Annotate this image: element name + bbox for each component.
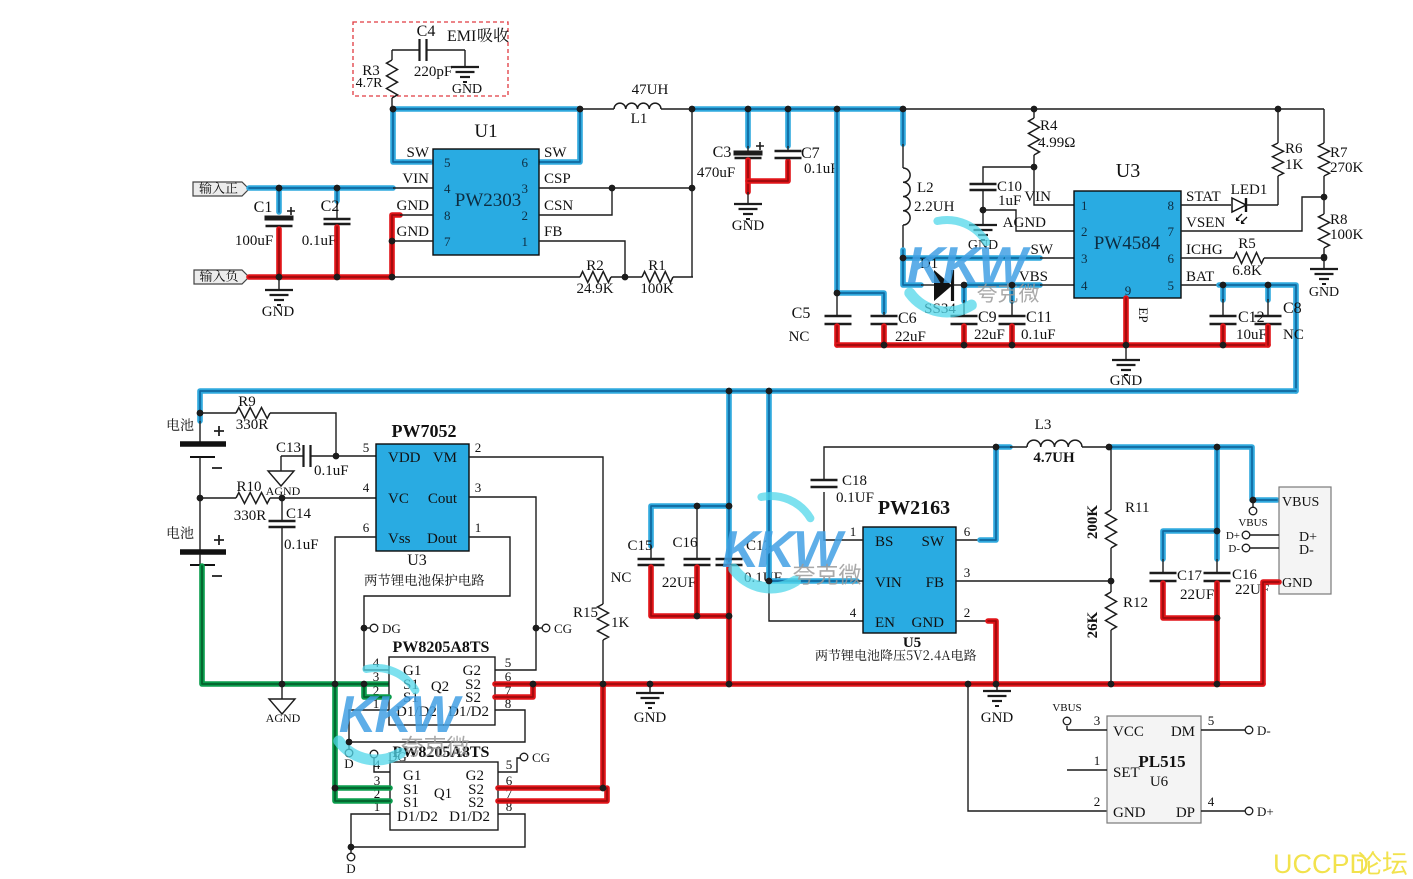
test point CG upper — [542, 624, 550, 632]
svg-text:C16: C16 — [1232, 567, 1258, 583]
svg-text:DM: DM — [1171, 724, 1195, 740]
inductor L2 2.2UH — [902, 144, 904, 168]
wire VBUS gnd red — [1217, 582, 1279, 684]
wire EP pad red — [1123, 298, 1129, 345]
svg-text:R9: R9 — [238, 394, 256, 410]
svg-text:D+: D+ — [1226, 530, 1240, 542]
junction dots top bus — [390, 106, 397, 113]
svg-text:PL515: PL515 — [1138, 752, 1185, 771]
wire U1 gnd pins — [400, 214, 433, 216]
svg-text:200K: 200K — [1085, 505, 1101, 540]
svg-text:6: 6 — [522, 155, 529, 170]
wire CSN net — [539, 188, 612, 215]
svg-text:8: 8 — [444, 208, 451, 223]
wire SET stub — [1067, 769, 1107, 771]
wire C5 gnd red — [834, 326, 840, 345]
svg-text:GND: GND — [1309, 285, 1339, 300]
svg-text:NC: NC — [611, 570, 632, 586]
wire Q1 G1 to DG — [374, 758, 390, 772]
wire Q2 S1 pin2 green — [364, 684, 389, 697]
ground right of Q2 — [649, 684, 651, 693]
wire Q1 G2 to CG — [498, 758, 520, 772]
svg-text:5: 5 — [505, 655, 512, 670]
svg-text:VIN: VIN — [1024, 189, 1051, 205]
capacitor C2 — [324, 218, 351, 221]
svg-text:0.1UF: 0.1UF — [836, 490, 874, 506]
wire battery plus bus blue — [200, 391, 1296, 421]
watermark KKW 2 — [366, 668, 415, 690]
buck IC U5 PW2163 body — [863, 527, 956, 633]
svg-text:GND: GND — [912, 615, 945, 631]
svg-text:C4: C4 — [417, 23, 436, 40]
wire D+ line — [1250, 534, 1279, 536]
svg-text:GND: GND — [732, 218, 765, 234]
svg-text:U6: U6 — [1150, 774, 1169, 790]
svg-text:1K: 1K — [1285, 157, 1304, 173]
svg-text:SET: SET — [1113, 765, 1140, 781]
resistor R15 1K — [598, 604, 609, 640]
led LED1 — [1232, 198, 1246, 212]
ground of C4 — [451, 66, 479, 68]
wire C15 C16 C17 gnd red — [651, 567, 729, 616]
svg-text:1uF: 1uF — [998, 193, 1021, 209]
svg-text:10uF: 10uF — [1236, 327, 1267, 343]
svg-text:CSP: CSP — [544, 171, 571, 187]
svg-text:BS: BS — [875, 534, 893, 550]
svg-text:22uF: 22uF — [974, 327, 1005, 343]
svg-text:4: 4 — [1081, 278, 1088, 293]
svg-text:C15: C15 — [627, 538, 652, 554]
capacitor C17 22UF output — [1163, 531, 1217, 559]
wire VOUT bus blue — [692, 106, 903, 112]
wire C6 gnd red — [881, 326, 887, 345]
wire SW node top bus blue left — [393, 106, 580, 112]
svg-text:24.9K: 24.9K — [576, 281, 613, 297]
svg-text:AGND: AGND — [266, 711, 301, 725]
svg-text:D1/D2: D1/D2 — [449, 809, 490, 825]
wire Dout net to DG — [364, 537, 510, 670]
wire VCC to VBUS tp — [1067, 729, 1107, 731]
ground of EP — [1125, 345, 1127, 360]
watermark KKW 3 — [761, 496, 810, 518]
svg-text:1: 1 — [522, 234, 529, 249]
svg-text:Vss: Vss — [388, 531, 411, 547]
svg-text:VBUS: VBUS — [1052, 702, 1081, 714]
svg-text:R5: R5 — [1238, 236, 1256, 252]
svg-text:FB: FB — [544, 224, 562, 240]
watermark KKW 1 — [937, 220, 986, 242]
svg-text:R10: R10 — [236, 479, 261, 495]
svg-text:100K: 100K — [640, 281, 674, 297]
wire C3 stub blue — [745, 109, 751, 146]
wire Vout to C5 C6 blue — [837, 109, 884, 312]
capacitor C15 NC — [650, 546, 652, 559]
svg-text:22UF: 22UF — [1180, 587, 1214, 603]
svg-text:D1/D2: D1/D2 — [397, 809, 438, 825]
svg-text:STAT: STAT — [1186, 189, 1221, 205]
svg-text:CG: CG — [532, 750, 550, 765]
svg-text:L1: L1 — [631, 111, 648, 127]
ground below bus mid — [996, 684, 998, 691]
svg-text:4.7UH: 4.7UH — [1033, 450, 1075, 466]
svg-text:GND: GND — [1110, 373, 1143, 389]
svg-text:PW2163: PW2163 — [878, 497, 950, 519]
svg-text:1: 1 — [475, 520, 482, 535]
resistor R1 100K — [642, 272, 673, 283]
svg-text:EMI: EMI — [447, 28, 476, 45]
wire Q1 S2 pins red — [498, 684, 603, 788]
svg-text:CG: CG — [554, 621, 572, 636]
svg-text:0.1uF: 0.1uF — [314, 463, 349, 479]
capacitor C3 470uF polarized — [747, 146, 749, 151]
svg-text:SW: SW — [544, 145, 567, 161]
svg-text:C2: C2 — [321, 198, 340, 215]
svg-text:100K: 100K — [1330, 227, 1364, 243]
svg-text:470uF: 470uF — [697, 165, 735, 181]
svg-text:2: 2 — [1081, 224, 1088, 239]
svg-text:6: 6 — [363, 520, 370, 535]
wire D1 anode blue — [903, 258, 921, 285]
capacitor C18 0.1UF — [811, 479, 838, 482]
capacitor C16 22UF output — [1214, 447, 1220, 559]
node VBUS test point — [1250, 497, 1257, 504]
svg-text:3: 3 — [1094, 713, 1101, 728]
svg-text:VBUS: VBUS — [1238, 517, 1267, 529]
wire C3 gnd red — [745, 160, 751, 192]
analog ground AGND below — [269, 699, 295, 714]
capacitor C1 100uF polarized — [336, 201, 338, 219]
junction dots overlay — [390, 106, 397, 113]
wire C2 stub blue — [334, 188, 340, 201]
battery B2 bottom cell — [180, 549, 226, 555]
wire U1 pin6 SW riser — [539, 109, 580, 162]
capacitor C11 0.1uF — [1009, 285, 1015, 301]
svg-text:0.1uF: 0.1uF — [302, 233, 337, 249]
inductor L3 4.7UH — [1010, 446, 1027, 448]
svg-text:D-: D- — [1228, 543, 1240, 555]
caption battery protection circuit — [365, 574, 485, 586]
svg-text:GND: GND — [981, 710, 1014, 726]
svg-text:8: 8 — [1168, 198, 1175, 213]
svg-text:0.1uF: 0.1uF — [804, 161, 839, 177]
svg-text:6: 6 — [964, 524, 971, 539]
svg-text:270K: 270K — [1330, 160, 1364, 176]
wire between cells — [199, 457, 201, 550]
svg-text:VCC: VCC — [1113, 724, 1144, 740]
input positive terminal — [193, 182, 249, 196]
wire FB net — [539, 241, 625, 277]
svg-text:26K: 26K — [1085, 611, 1101, 638]
svg-text:GND: GND — [634, 710, 667, 726]
svg-text:D: D — [346, 861, 355, 876]
svg-text:R11: R11 — [1125, 500, 1149, 516]
capacitor C5 NC — [836, 293, 838, 316]
svg-text:1K: 1K — [611, 615, 630, 631]
svg-text:VIN: VIN — [875, 575, 902, 591]
resistor R8 100K — [1319, 214, 1330, 248]
svg-text:R7: R7 — [1330, 145, 1348, 161]
svg-text:LED1: LED1 — [1231, 182, 1268, 198]
svg-text:GND: GND — [262, 304, 295, 320]
svg-text:C18: C18 — [842, 473, 867, 489]
wire mid gnd bus red — [533, 681, 1263, 687]
wire top bus black right — [903, 108, 1324, 110]
svg-text:4: 4 — [363, 480, 370, 495]
op-amp U1 PW2303 body — [433, 149, 539, 255]
svg-text:C7: C7 — [801, 145, 820, 162]
svg-text:DG: DG — [382, 621, 401, 636]
wire FB net — [956, 580, 1111, 582]
svg-text:GND: GND — [452, 82, 482, 97]
svg-text:4.99Ω: 4.99Ω — [1038, 135, 1075, 151]
svg-text:VIN: VIN — [402, 171, 429, 187]
resistor R6 1K — [1277, 109, 1279, 143]
mosfet Q1 body — [390, 762, 498, 830]
svg-text:SW: SW — [1031, 242, 1054, 258]
wire gnd bus red top — [837, 342, 1268, 348]
svg-text:L2: L2 — [917, 180, 934, 196]
svg-text:3: 3 — [475, 480, 482, 495]
svg-text:D+: D+ — [1257, 804, 1274, 819]
svg-text:GND: GND — [397, 198, 430, 214]
svg-text:GND: GND — [1113, 805, 1146, 821]
wire GND pin red — [956, 620, 989, 622]
wire Q1 D1/D2 loop — [351, 814, 525, 847]
analog ground AGND of C13 — [280, 456, 282, 471]
usb id IC U6 PL515 body — [1107, 716, 1201, 823]
wire DM to D- — [1201, 729, 1245, 731]
svg-text:7: 7 — [444, 234, 451, 249]
svg-text:5: 5 — [444, 155, 451, 170]
wire D- line — [1250, 547, 1279, 549]
svg-text:4.7R: 4.7R — [356, 76, 384, 91]
capacitor C8 NC — [1265, 285, 1271, 300]
capacitor C6 22uF — [883, 312, 885, 316]
input negative terminal — [194, 270, 249, 284]
svg-text:C14: C14 — [286, 506, 312, 522]
svg-text:R8: R8 — [1330, 212, 1348, 228]
svg-text:4: 4 — [444, 181, 451, 196]
svg-text:3: 3 — [1081, 251, 1088, 266]
wire U1 pin5 SW riser — [393, 109, 431, 162]
wire L2 top blue — [900, 109, 906, 144]
capacitor C14 0.1uF — [281, 498, 283, 521]
svg-text:VC: VC — [388, 491, 409, 507]
svg-text:D-: D- — [1299, 543, 1314, 558]
svg-text:2.2UH: 2.2UH — [914, 199, 955, 215]
svg-text:R4: R4 — [1040, 118, 1058, 134]
resistor R11 200K — [1110, 447, 1112, 510]
svg-text:C17: C17 — [1177, 568, 1203, 584]
resistor R7 270K — [1323, 109, 1325, 143]
wire Vss net — [335, 537, 376, 684]
svg-text:2: 2 — [1094, 794, 1101, 809]
svg-text:NC: NC — [1283, 327, 1304, 343]
svg-text:0.1uF: 0.1uF — [284, 537, 319, 553]
test point CG lower — [520, 753, 528, 761]
svg-text:AGND: AGND — [1003, 215, 1046, 231]
svg-text:PW8205A8TS: PW8205A8TS — [393, 639, 490, 656]
wire C10 to AGND pin — [982, 190, 984, 225]
wire VIN drop blue — [769, 391, 857, 581]
resistor R5 6.8K — [1181, 257, 1234, 259]
wire CSP net — [539, 187, 692, 189]
svg-text:U5: U5 — [903, 635, 921, 651]
wire R4 to VIN — [1034, 167, 1074, 205]
svg-text:U3: U3 — [407, 552, 427, 569]
svg-text:FB: FB — [926, 575, 944, 591]
wire C2 to gnd red — [334, 227, 340, 277]
wire L1 output to CSP vertical — [691, 109, 693, 277]
svg-text:330R: 330R — [234, 508, 267, 524]
svg-text:DP: DP — [1176, 805, 1195, 821]
ground of C10 — [969, 224, 997, 226]
svg-text:100uF: 100uF — [235, 233, 273, 249]
mosfet Q2 body — [389, 657, 495, 725]
test point DG upper — [370, 624, 378, 632]
wire top bus black through L1 — [580, 108, 614, 110]
capacitor C17 0.1UF — [728, 559, 730, 562]
ground of C3 — [747, 192, 749, 204]
svg-text:R15: R15 — [573, 605, 598, 621]
svg-text:C11: C11 — [1026, 309, 1052, 326]
wire STAT to LED1 — [1181, 204, 1231, 206]
svg-text:5: 5 — [363, 440, 370, 455]
svg-text:0.1uF: 0.1uF — [1021, 327, 1056, 343]
wire bottom sense line — [392, 276, 580, 278]
wire VBAT drop to C17 blue — [726, 391, 732, 562]
svg-text:VDD: VDD — [388, 450, 421, 466]
diode D1 SS34 — [921, 284, 935, 286]
svg-text:R6: R6 — [1285, 141, 1303, 157]
capacitor C7 — [787, 146, 789, 151]
ground of R8 — [1323, 258, 1325, 269]
svg-text:1: 1 — [850, 524, 857, 539]
svg-text:GND: GND — [397, 224, 430, 240]
resistor R12 26K — [1110, 581, 1112, 592]
svg-text:Q1: Q1 — [434, 786, 452, 802]
svg-text:3: 3 — [522, 181, 529, 196]
resistor R10 330R — [200, 497, 236, 499]
svg-text:BAT: BAT — [1186, 269, 1214, 285]
svg-text:3: 3 — [964, 565, 971, 580]
wire C7 stub blue — [785, 109, 791, 146]
capacitor C12 10uF — [1220, 285, 1226, 300]
svg-text:U1: U1 — [474, 121, 497, 142]
svg-text:U3: U3 — [1116, 160, 1140, 182]
wire SW to L3 blue — [956, 539, 982, 541]
resistor R3 — [387, 60, 398, 98]
wire C3-C7 red link — [748, 161, 788, 181]
EMI snubber dashed box — [353, 22, 508, 96]
svg-text:ICHG: ICHG — [1186, 242, 1223, 258]
svg-text:1: 1 — [1081, 198, 1088, 213]
wire DP to D+ — [1201, 810, 1245, 812]
svg-text:SW: SW — [407, 145, 430, 161]
svg-text:PW4584: PW4584 — [1094, 233, 1161, 254]
wire C1 stub blue — [276, 188, 282, 212]
svg-text:PW7052: PW7052 — [392, 421, 457, 441]
svg-text:KKW: KKW — [339, 686, 463, 744]
wire BAT net blue — [1181, 284, 1221, 286]
wire battery minus green — [202, 566, 389, 684]
svg-text:5: 5 — [1208, 713, 1215, 728]
connector VBUS output — [1279, 487, 1331, 594]
svg-text:Dout: Dout — [427, 531, 458, 547]
svg-text:4: 4 — [1208, 794, 1215, 809]
wire EN tie — [769, 581, 863, 621]
wire VBS net blue — [964, 282, 1040, 288]
svg-text:VBUS: VBUS — [1282, 495, 1319, 510]
svg-text:C1: C1 — [254, 199, 273, 216]
wire Cout net to CG — [469, 497, 536, 670]
svg-text:330R: 330R — [236, 417, 269, 433]
battery B1 top cell — [199, 421, 201, 442]
junction dots input bus — [276, 274, 283, 281]
ground of input — [278, 277, 280, 290]
svg-text:GND: GND — [1282, 576, 1312, 591]
caption buck 5V circuit — [816, 649, 977, 661]
svg-text:R12: R12 — [1123, 595, 1148, 611]
svg-text:SW: SW — [922, 534, 945, 550]
svg-text:VSEN: VSEN — [1186, 215, 1225, 231]
wire GND input red bus — [249, 215, 400, 277]
svg-text:7: 7 — [1168, 224, 1175, 239]
svg-text:1: 1 — [1094, 753, 1101, 768]
wire C4 network — [392, 49, 419, 51]
wire VM net to R15 — [469, 457, 603, 604]
svg-text:2: 2 — [475, 440, 482, 455]
svg-text:6: 6 — [1168, 251, 1175, 266]
svg-text:UCCPD: UCCPD — [1273, 849, 1369, 879]
svg-text:2: 2 — [964, 605, 971, 620]
protection IC U3 PW7052 body — [376, 444, 469, 551]
wire Q2 D1/D2 loop — [349, 710, 525, 742]
capacitor C4 — [418, 39, 420, 61]
wire Q2 S2 pins red — [495, 681, 533, 687]
wire C1 to gnd red — [276, 229, 282, 277]
test point DG lower — [370, 750, 378, 758]
svg-text:C13: C13 — [276, 440, 301, 456]
wire Q1 S1 pins green — [335, 684, 390, 788]
svg-text:L3: L3 — [1035, 417, 1052, 433]
svg-text:CSN: CSN — [544, 198, 573, 214]
capacitor C13 0.1uF — [281, 455, 303, 457]
svg-text:C3: C3 — [713, 144, 732, 161]
charger U3 PW4584 body — [1074, 191, 1181, 298]
svg-text:47UH: 47UH — [632, 82, 669, 98]
svg-text:NC: NC — [789, 329, 810, 345]
svg-text:PW2303: PW2303 — [455, 190, 522, 211]
svg-text:C9: C9 — [978, 309, 997, 326]
svg-text:2: 2 — [522, 208, 529, 223]
capacitor C16 22UF — [696, 506, 698, 559]
svg-text:EN: EN — [875, 615, 895, 631]
wire VSEN net — [1181, 197, 1324, 231]
svg-text:C8: C8 — [1283, 300, 1302, 317]
svg-text:22UF: 22UF — [662, 575, 696, 591]
wire BS bootstrap loop — [824, 492, 863, 540]
svg-text:6.8K: 6.8K — [1232, 263, 1262, 279]
wire SW node blue — [903, 250, 1040, 258]
resistor R2 24.9K — [580, 272, 611, 283]
svg-text:D-: D- — [1257, 723, 1271, 738]
svg-text:5: 5 — [506, 757, 513, 772]
svg-text:VM: VM — [433, 450, 457, 466]
svg-text:Cout: Cout — [428, 491, 458, 507]
resistor R9 330R — [200, 412, 236, 414]
svg-text:C6: C6 — [898, 310, 917, 327]
